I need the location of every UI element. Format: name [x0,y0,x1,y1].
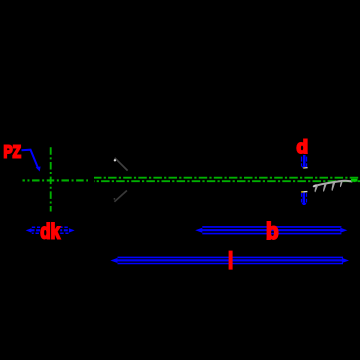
wire thread tooth 2 [323,184,327,192]
node d lower extension tick [301,191,303,193]
wire thread tooth 4 [340,182,343,188]
wire thread tooth 3 [332,183,336,191]
svg-text:dk: dk [40,220,60,244]
node PZ leader arrowhead [36,167,41,172]
label l [229,251,233,270]
node head corner highlight dot [114,159,116,161]
node thread start highlight [313,185,316,187]
dimension d lower arrow [301,193,307,205]
svg-text:b: b [266,218,279,244]
dimension b (thread length) [195,227,347,234]
wire side-view axis centerline (upper strand) [94,177,360,179]
dimension l (total length) [110,257,349,263]
node front-view center cross: vertical centerline [50,147,52,211]
left arrowhead pointing left [26,228,32,232]
svg-text:PZ: PZ [4,142,22,162]
dimension dk (head diameter) [26,227,75,233]
wire PZ leader line [22,150,38,168]
wire head cone lower diagonal [114,191,127,202]
wire side-view axis centerline (lower strand) [94,180,360,182]
node d upper extension tick [303,167,305,169]
wire head cone upper diagonal [115,158,128,171]
node front-view horizontal centerline [23,179,89,181]
wire threaded tip silhouette [313,181,352,187]
wire thread tooth 1 [315,185,319,192]
right arrowhead pointing right [69,228,75,232]
node centerline bright segment at tip [351,179,358,182]
dimension d upper arrow [301,155,307,169]
svg-text:d: d [297,136,309,157]
node lower head corner faint dot [114,198,116,200]
